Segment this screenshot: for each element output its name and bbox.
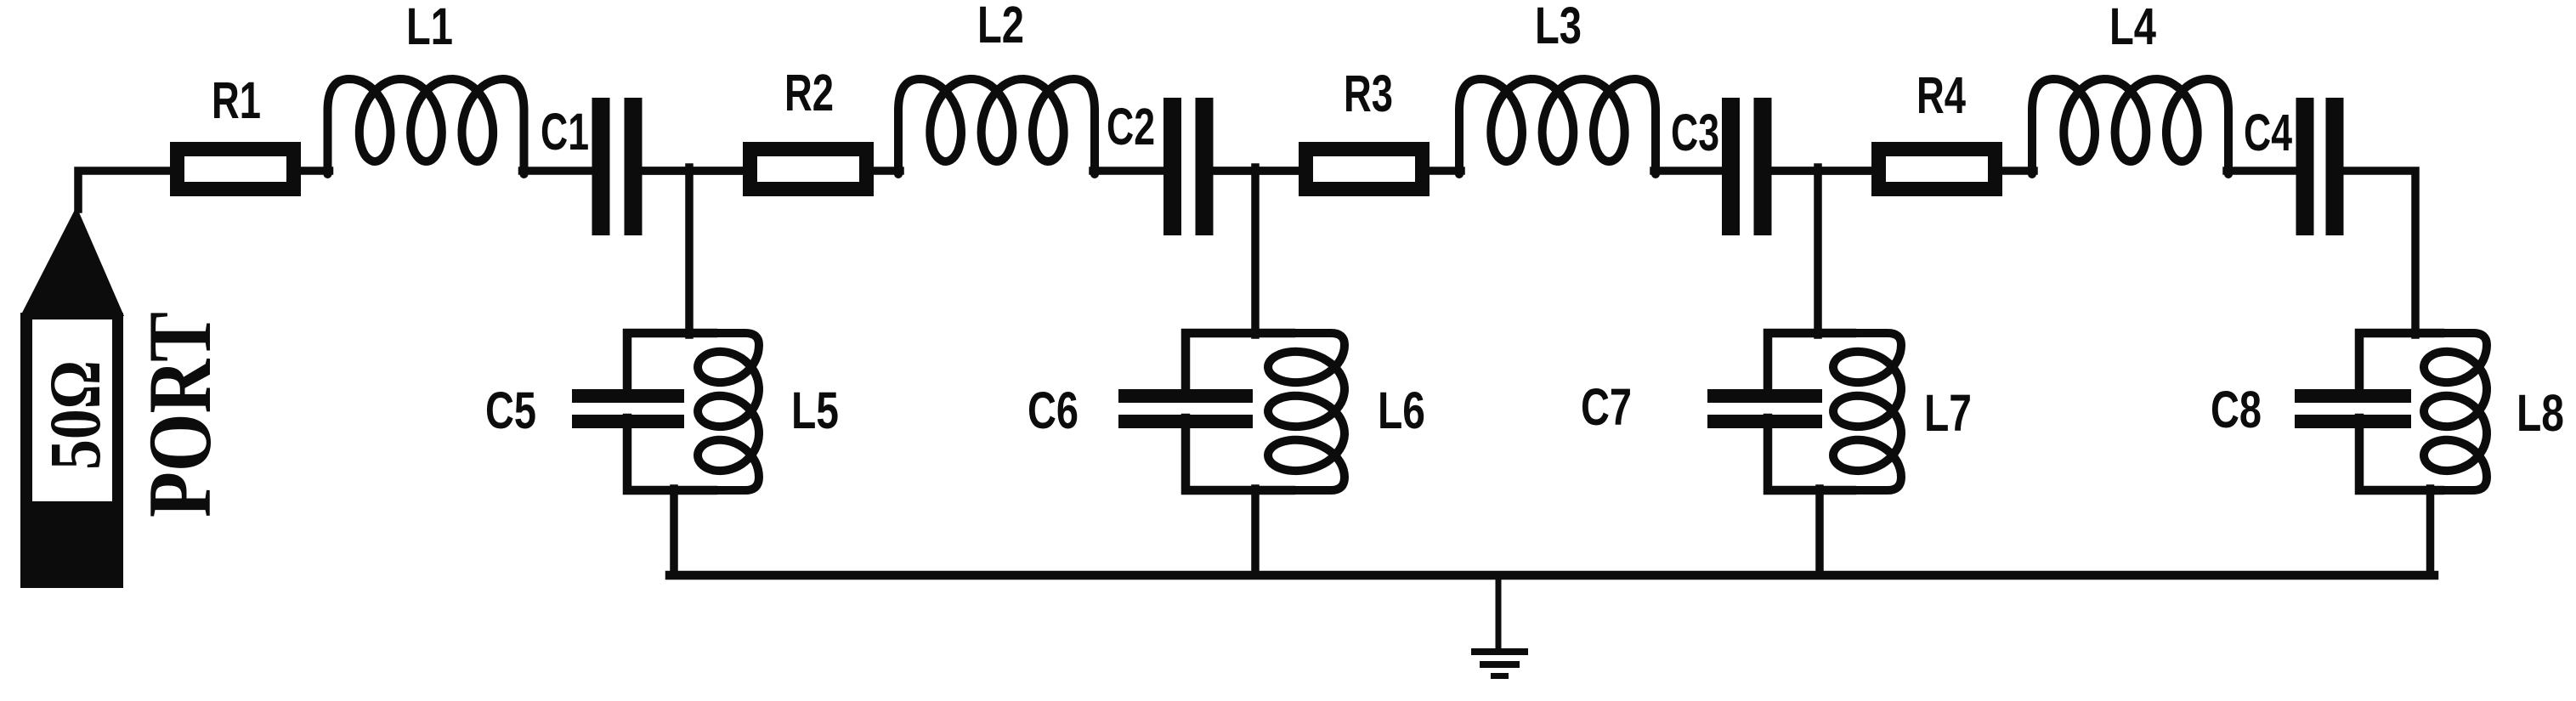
inductor L7: [1833, 333, 1901, 490]
svg-text:R1: R1: [212, 71, 261, 129]
svg-text:R4: R4: [1916, 66, 1966, 124]
capacitor C2: [1163, 98, 1181, 235]
wire: [1771, 167, 1876, 175]
svg-text:R3: R3: [1344, 65, 1393, 122]
wire: [2343, 171, 2416, 335]
svg-text:C1: C1: [541, 103, 589, 161]
inductor L2: [898, 79, 1095, 174]
svg-text:C4: C4: [2244, 104, 2292, 161]
wire: [523, 167, 594, 175]
capacitor C7: [1707, 389, 1822, 403]
inductor L5: [698, 333, 759, 490]
resistor R2: [750, 150, 867, 189]
port P1 (50&#937; PORT): [20, 171, 229, 588]
wire: [1768, 333, 1852, 396]
svg-text:L3: L3: [1535, 0, 1582, 54]
svg-text:L8: L8: [2517, 384, 2564, 442]
wire: [1771, 167, 1876, 175]
node J1 shunt wire: [685, 167, 694, 335]
wire: [872, 167, 900, 175]
svg-text:50Ω: 50Ω: [34, 360, 116, 470]
svg-text:C8: C8: [2211, 381, 2262, 438]
wire: [627, 333, 713, 396]
wire: [2001, 167, 2034, 175]
svg-text:L5: L5: [791, 382, 839, 439]
svg-text:C2: C2: [1107, 98, 1155, 155]
wire: [2359, 333, 2440, 396]
wire: [1251, 489, 1260, 575]
wire (ground bus): [670, 571, 2434, 580]
inductor L1: [328, 79, 524, 174]
svg-text:PORT: PORT: [130, 312, 229, 517]
wire: [2426, 489, 2435, 575]
resistor R3: [1306, 150, 1423, 189]
svg-text:C6: C6: [1028, 382, 1079, 439]
wire: [1654, 167, 1724, 175]
capacitor C5: [572, 389, 684, 403]
capacitor C6: [1118, 389, 1253, 403]
node J3 shunt wire: [1814, 167, 1822, 335]
wire: [2227, 167, 2298, 175]
wire: [1428, 167, 1461, 175]
wire: [1093, 167, 1165, 175]
wire: [642, 167, 747, 175]
svg-text:L4: L4: [2109, 0, 2156, 55]
resistor R1: [178, 150, 294, 189]
svg-text:L1: L1: [406, 0, 453, 55]
inductor L6: [1268, 333, 1345, 490]
inductor L3: [1459, 79, 1656, 174]
svg-text:C5: C5: [485, 382, 536, 439]
svg-text:L6: L6: [1378, 382, 1425, 439]
wire: [642, 167, 747, 175]
inductor L4: [2032, 79, 2228, 174]
wire: [299, 167, 330, 175]
svg-text:L2: L2: [977, 0, 1024, 54]
wire: [1815, 489, 1824, 575]
resistor R4: [1879, 150, 1996, 189]
svg-text:R2: R2: [784, 64, 834, 122]
capacitor C8: [2295, 389, 2411, 403]
wire: [1213, 167, 1303, 175]
svg-text:L7: L7: [1924, 384, 1972, 442]
capacitor C4: [2296, 98, 2314, 235]
wire: [1213, 167, 1303, 175]
node J2 shunt wire: [1251, 167, 1260, 335]
svg-text:C7: C7: [1581, 378, 1632, 436]
wire: [1186, 333, 1291, 396]
capacitor C3: [1722, 98, 1740, 235]
inductor L8: [2424, 333, 2487, 490]
svg-text:C3: C3: [1671, 104, 1719, 161]
ground: [1496, 578, 1502, 650]
wire: [670, 489, 678, 575]
capacitor C1: [592, 98, 610, 235]
